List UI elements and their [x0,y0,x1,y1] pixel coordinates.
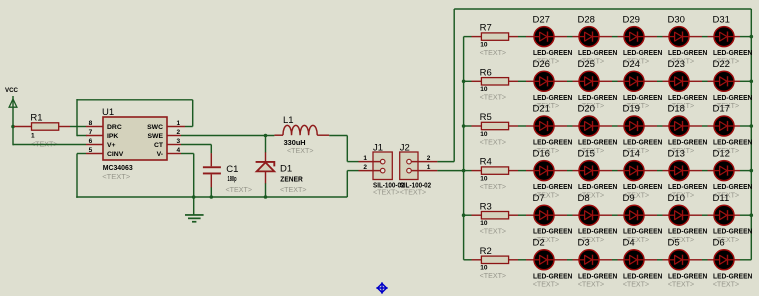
LED D6 [714,250,734,270]
junction right bus row y170.6 [750,169,754,173]
LED D19 [624,116,644,136]
wire LED matrix right bus [750,9,752,260]
wire row R7 horizontal run [464,36,752,38]
svg-text:<TEXT>: <TEXT> [480,271,507,280]
resistor R4 [481,167,508,174]
svg-text:D9: D9 [623,193,635,204]
svg-text:R5: R5 [480,112,492,123]
junction D1/ground rail [264,195,268,199]
svg-text:D5: D5 [668,238,680,249]
resistor R1 [14,123,70,130]
junction C1/ground rail [210,195,214,199]
svg-text:ZENER: ZENER [280,177,303,184]
LED D3 [579,250,599,270]
svg-text:D15: D15 [578,148,595,159]
svg-text:D18: D18 [668,104,685,115]
svg-text:R2: R2 [480,246,492,257]
wire LED matrix top rail [454,8,751,10]
LED D4 [624,250,644,270]
LED D12 [714,161,734,181]
svg-text:D17: D17 [713,104,730,115]
svg-text:SWE: SWE [148,133,164,140]
ground symbol [185,197,204,223]
junction left bus row y170.6 [462,169,466,173]
wire row R4 horizontal run [464,170,752,172]
LED D11 [714,205,734,225]
svg-text:8: 8 [89,120,93,127]
LED D30 [669,27,689,47]
U1 pin 8 DRC stub [86,126,103,128]
wire J2 pin1 to LED matrix left bus [437,170,463,172]
svg-text:MC34063: MC34063 [103,165,133,172]
LED D15 [579,161,599,181]
svg-text:2: 2 [363,164,367,171]
junction SWE/D1 [264,134,268,138]
svg-text:D20: D20 [578,104,595,115]
wire U1 pin3 CT to C1 [181,145,211,154]
U1 pin 7 IPK stub [86,135,103,137]
junction V-/ground rail [192,195,196,199]
junction right bus row y126.0 [750,124,754,128]
svg-text:D13: D13 [668,148,685,159]
LED D24 [624,71,644,91]
svg-text:D12: D12 [713,148,730,159]
svg-text:D1: D1 [280,164,292,175]
IC U1 MC34063 body [103,117,167,160]
svg-text:<TEXT>: <TEXT> [480,48,507,57]
svg-text:6: 6 [89,138,93,145]
svg-text:D6: D6 [713,238,725,249]
junction left bus row y215.2 [462,213,466,217]
LED D26 [534,71,554,91]
LED D5 [669,250,689,270]
svg-text:D27: D27 [533,14,550,25]
junction right bus row y215.2 [750,213,754,217]
svg-text:2: 2 [177,129,181,136]
LED D13 [669,161,689,181]
sheet origin marker [376,282,387,293]
svg-text:SWC: SWC [147,124,163,131]
svg-text:D11: D11 [713,193,730,204]
LED D9 [624,205,644,225]
connector J1 SIL-100-02 [373,152,392,180]
LED D25 [579,71,599,91]
svg-text:D26: D26 [533,59,550,70]
svg-text:J2: J2 [400,143,410,154]
svg-text:<TEXT>: <TEXT> [400,187,427,196]
wire D1 to ground rail [265,183,267,197]
resistor R6 [481,78,508,85]
svg-text:<TEXT>: <TEXT> [373,187,400,196]
wire SWE to D1 [265,136,267,153]
svg-text:DRC: DRC [107,124,122,131]
svg-text:2: 2 [427,155,431,162]
wire J2 pin2 up to LED matrix top rail [437,9,454,162]
wire V+ rail to U1 pin6 [13,144,86,146]
U1 pin 5 CINV stub [86,153,103,155]
svg-text:IPK: IPK [107,133,118,140]
wire U1 top loop SWC to IPK [77,99,193,101]
svg-text:5: 5 [89,147,93,154]
svg-text:R6: R6 [480,67,492,78]
svg-text:D28: D28 [578,14,595,25]
wire LED matrix left bus [463,37,465,260]
wire row R5 horizontal run [464,125,752,127]
wire row R6 horizontal run [464,80,752,82]
svg-text:R1: R1 [30,112,42,123]
svg-text:CINV: CINV [107,151,124,158]
U1 pin 2 SWE stub [167,135,181,137]
LED D21 [534,116,554,136]
svg-text:D2: D2 [533,238,545,249]
svg-text:7: 7 [89,129,93,136]
svg-text:<TEXT>: <TEXT> [480,93,507,102]
J1 pin 2 stub [359,170,381,172]
svg-text:1: 1 [427,164,431,171]
wire corner into U1 pin7 [77,135,87,137]
junction right bus row y36.6 [750,35,754,39]
LED D31 [714,27,734,47]
svg-text:VCC: VCC [5,87,18,94]
svg-text:<TEXT>: <TEXT> [480,137,507,146]
svg-text:D24: D24 [623,59,640,70]
svg-text:J1: J1 [373,143,383,154]
svg-text:3: 3 [177,138,181,145]
svg-text:4: 4 [177,147,181,154]
svg-text:D19: D19 [623,104,640,115]
LED D14 [624,161,644,181]
inductor L1 [274,125,329,135]
svg-text:<TEXT>: <TEXT> [578,280,605,289]
svg-text:D21: D21 [533,104,550,115]
LED D10 [669,205,689,225]
svg-text:<TEXT>: <TEXT> [668,280,695,289]
resistor R3 [481,212,508,219]
svg-text:U1: U1 [102,107,114,118]
diode D1 zener [256,152,275,183]
LED D20 [579,116,599,136]
LED D2 [534,250,554,270]
svg-text:1: 1 [363,155,367,162]
svg-text:R3: R3 [480,201,492,212]
ground rail wire [76,196,347,198]
LED D28 [579,27,599,47]
connector J2 SIL-100-02 [400,152,418,180]
J2 pin 2 stub [412,161,438,163]
junction VCC/R1 [11,125,15,129]
U1 pin 4 V- stub [167,153,181,155]
svg-text:<TEXT>: <TEXT> [623,280,650,289]
svg-text:<TEXT>: <TEXT> [226,185,253,194]
resistor R5 [481,122,508,129]
wire VCC vertical rail [12,107,14,145]
svg-text:<TEXT>: <TEXT> [480,182,507,191]
LED D22 [714,71,734,91]
svg-text:D7: D7 [533,193,545,204]
U1 pin 3 CT stub [167,144,181,146]
junction left bus row y81.3 [462,80,466,84]
LED D17 [714,116,734,136]
svg-text:R7: R7 [480,23,492,34]
svg-text:D4: D4 [623,238,635,249]
svg-text:D10: D10 [668,193,685,204]
LED D16 [534,161,554,181]
svg-text:180p: 180p [228,176,237,183]
svg-text:CT: CT [154,142,164,149]
wire L1 to J1 pin1 [329,136,358,162]
svg-text:D31: D31 [713,14,730,25]
svg-text:D29: D29 [623,14,640,25]
svg-text:D8: D8 [578,193,590,204]
capacitor C1 [203,153,221,187]
svg-text:<TEXT>: <TEXT> [102,172,131,181]
wire row R3 horizontal run [464,214,752,216]
svg-text:R4: R4 [480,157,492,168]
wire row R2 horizontal run [464,259,752,261]
J1 pin 1 stub [359,161,381,163]
U1 pin 1 SWC stub [167,126,185,128]
LED D7 [534,205,554,225]
svg-text:D16: D16 [533,148,550,159]
svg-text:D25: D25 [578,59,595,70]
LED D18 [669,116,689,136]
svg-text:<TEXT>: <TEXT> [480,227,507,236]
LED D29 [624,27,644,47]
svg-text:D22: D22 [713,59,730,70]
junction left bus row y126.0 [462,124,466,128]
svg-text:1: 1 [177,120,181,127]
svg-text:V-: V- [157,151,163,158]
svg-text:<TEXT>: <TEXT> [287,146,314,155]
LED D8 [579,205,599,225]
wire J1 pin2 to ground rail [347,171,358,197]
svg-text:<TEXT>: <TEXT> [533,280,560,289]
U1 pin 6 V+ stub [86,144,103,146]
wire R1 to U1 pin8 DRC [70,126,86,128]
wire U1 pin2 SWE run to L1 and J1 [181,135,274,137]
svg-text:C1: C1 [226,164,238,175]
wire into U1 pin1 [185,126,193,128]
resistor R2 [481,256,508,263]
resistor R7 [481,33,508,40]
svg-text:V+: V+ [107,142,116,149]
svg-text:<TEXT>: <TEXT> [713,280,740,289]
svg-text:D14: D14 [623,148,640,159]
wire U1 pin5 CINV to ground rail [77,154,86,198]
wire node pin7/pin1 vertical [76,99,78,136]
wire C1 to ground rail [210,187,212,197]
svg-text:D23: D23 [668,59,685,70]
wire U1 pin4 V- down to ground [181,154,194,198]
LED D27 [534,27,554,47]
svg-text:L1: L1 [283,115,294,126]
J2 pin 1 stub [412,170,438,172]
svg-text:<TEXT>: <TEXT> [280,185,307,194]
junction right bus row y81.3 [750,80,754,84]
svg-text:D30: D30 [668,14,685,25]
LED D23 [669,71,689,91]
power symbol VCC [9,96,17,108]
svg-text:D3: D3 [578,238,590,249]
